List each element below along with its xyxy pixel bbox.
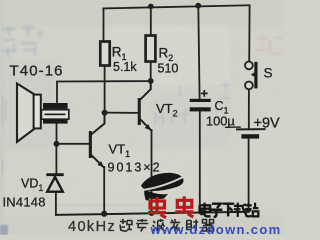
node A junction dot: [102, 110, 108, 116]
wire top rail: [103, 5, 249, 8]
capacitor C1 bottom plate: [190, 107, 211, 111]
battery positive plate: [236, 128, 266, 130]
transducer B driver rectangle: [34, 95, 41, 129]
resistor R2: [146, 36, 156, 62]
diode VD1 triangle: [47, 177, 63, 192]
caption char 发: [170, 219, 181, 231]
wire VT1 base from VD1 node: [57, 143, 89, 145]
caption char 声: [136, 219, 148, 232]
transistor VT1 base bar: [89, 131, 92, 158]
wire transducer top lead: [57, 81, 151, 103]
caption char 射: [187, 220, 199, 232]
wire R2 bottom lead to node B: [150, 62, 152, 81]
caption char 超: [120, 219, 132, 231]
transducer B piezo middle box: [41, 110, 68, 120]
junction dot rail at VT2 emitter: [149, 210, 155, 216]
watermark char 载: [234, 203, 247, 217]
junction dot top rail at C1: [195, 3, 201, 9]
watermark red char 虫 left: [148, 197, 166, 218]
switch S actuator nub: [251, 72, 254, 76]
wire VD1 bottom lead: [55, 192, 57, 215]
wire R2 top lead: [150, 6, 152, 35]
battery negative plate: [241, 134, 259, 138]
bleed-through marks mid (faint blue): [155, 81, 230, 124]
watermark char 站: [246, 203, 259, 217]
wire VT1 emitter diagonal: [92, 156, 104, 168]
switch S top contact circle: [245, 62, 253, 70]
wire switch top lead: [248, 5, 250, 61]
wire C1 top lead: [198, 6, 199, 99]
wire C1 bottom lead: [199, 111, 201, 212]
capacitor C1 plus sign: [201, 90, 208, 97]
junction dot top rail at R2: [148, 4, 154, 10]
wire VT1 collector: [92, 113, 105, 134]
transducer B piezo bottom bar: [43, 119, 68, 123]
watermark graduation cap icon: [141, 173, 184, 201]
transistor VT2 emitter arrowhead: [145, 124, 151, 130]
watermark cap white slash: [139, 176, 185, 191]
wire VT2 emitter vertical to rail: [151, 130, 153, 213]
transistor VT2 base bar: [138, 98, 141, 125]
wire VT2 base from node A: [105, 112, 138, 114]
wire VT2 emitter diagonal: [140, 119, 151, 130]
wire transducer bottom lead: [56, 123, 58, 143]
resistor R1: [100, 42, 109, 66]
diode VD1 cathode bar: [46, 173, 63, 176]
capacitor C1 top plate: [190, 99, 211, 102]
transistor VT1 emitter arrowhead: [97, 161, 103, 167]
transducer B horn: [17, 84, 35, 142]
transducer B piezo inner line: [45, 113, 66, 115]
bleed-through text top-left (from page reverse): [3, 25, 40, 58]
caption char 波: [153, 219, 165, 231]
watermark char 下: [223, 204, 235, 217]
watermark red char 虫 right: [175, 196, 193, 217]
node B junction dot: [148, 78, 154, 84]
watermark char 子: [210, 204, 222, 217]
wire VT2 collector: [140, 81, 151, 100]
transducer B piezo top bar: [43, 103, 68, 109]
faint smear line above caption: [55, 204, 145, 206]
bleed-through bottom-left corner blob: [0, 225, 8, 235]
wire battery bottom lead: [248, 139, 250, 212]
wire R1 top lead: [103, 8, 105, 41]
wire R1 bottom lead to node A: [104, 66, 106, 111]
switch S actuator bar: [254, 62, 257, 89]
wire bottom rail: [56, 212, 249, 215]
junction dot transducer/VD1 node: [54, 141, 60, 147]
bleed-through pink text right edge: [255, 34, 282, 54]
bleed-through left edge strip: [2, 96, 6, 174]
caption char 器: [203, 220, 214, 232]
label 100u underline: [225, 126, 241, 128]
wire switch to battery: [248, 89, 250, 128]
junction dot rail at VT1 emitter: [101, 211, 107, 217]
watermark char 电: [200, 203, 211, 217]
wire VT1 emitter vertical to rail: [103, 167, 105, 214]
junction dot rail at C1: [199, 210, 205, 216]
wire VD1 top lead: [55, 144, 57, 174]
switch S bottom contact circle: [245, 82, 253, 90]
